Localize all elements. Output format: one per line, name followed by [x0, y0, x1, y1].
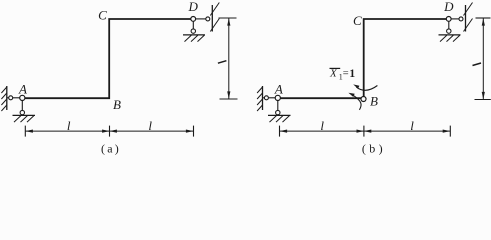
ground under D (b) [439, 35, 461, 42]
horizontal link wall to A (a) [7, 97, 22, 99]
svg-text:D: D [443, 0, 454, 14]
svg-text:A: A [274, 82, 283, 97]
roller circle below D (a) [191, 29, 195, 33]
svg-text:A: A [18, 82, 27, 97]
roller circle below A (a) [20, 110, 24, 114]
hinge A circle (b) [275, 95, 280, 100]
svg-text:l: l [320, 118, 324, 133]
vertical link below D (b) [448, 19, 450, 31]
wall link pin circle (a) [9, 96, 13, 100]
svg-text:X: X [329, 68, 338, 80]
vertical link below A (b) [277, 98, 279, 113]
ground under D (a) [183, 35, 205, 42]
svg-text:C: C [353, 13, 362, 28]
hinge D circle (a) [191, 17, 196, 22]
horizontal dimension line (a) [25, 126, 193, 137]
wall support at A (b) [257, 86, 262, 111]
vertical link below D (a) [192, 19, 194, 31]
svg-text:B: B [370, 94, 378, 109]
horizontal link wall to A (b) [263, 97, 278, 99]
svg-text:1: 1 [349, 68, 355, 80]
wall support right of D (b) [464, 3, 473, 32]
svg-text:B: B [113, 97, 121, 112]
ground under A (a) [13, 115, 36, 122]
dimension label l rotated (a) [218, 61, 227, 64]
unit moment arc right of B (b) [353, 84, 377, 90]
wall support at A (a) [1, 86, 6, 111]
member A-B (b) [278, 97, 362, 99]
vertical dimension line l (b) [475, 18, 491, 100]
dimension label l rotated (b) [473, 63, 482, 66]
hinge D circle (b) [446, 17, 451, 22]
svg-text:l: l [410, 118, 414, 133]
members A-B-C-D (a) [22, 19, 191, 98]
wall link pin circle at D (a) [206, 17, 210, 21]
roller circle below A (b) [276, 110, 280, 114]
svg-text:(b): (b) [362, 142, 386, 156]
hinge B circle (b) [361, 97, 366, 102]
label X1bar = 1 (b) [329, 68, 355, 82]
horizontal link D to wall (a) [193, 18, 208, 20]
wall link pin circle (b) [264, 96, 268, 100]
vertical dimension line l (a) [219, 18, 238, 99]
svg-text:l: l [67, 118, 71, 133]
svg-text:l: l [148, 118, 152, 133]
roller circle below D (b) [447, 29, 451, 33]
vertical link below A (a) [21, 98, 23, 113]
wall link pin circle at D (b) [459, 17, 463, 21]
svg-text:D: D [188, 0, 199, 14]
ground under A (b) [268, 115, 291, 122]
svg-text:(a): (a) [101, 142, 121, 156]
svg-text:C: C [98, 8, 107, 23]
wall support right of D (a) [210, 3, 219, 32]
horizontal dimension line (b) [280, 126, 451, 137]
svg-text:=: = [343, 68, 349, 79]
hinge A circle (a) [20, 95, 25, 100]
unit moment arc left of B (b) [348, 93, 361, 110]
members B-C-D (b) [364, 19, 447, 97]
horizontal link D to wall (b) [449, 18, 461, 20]
